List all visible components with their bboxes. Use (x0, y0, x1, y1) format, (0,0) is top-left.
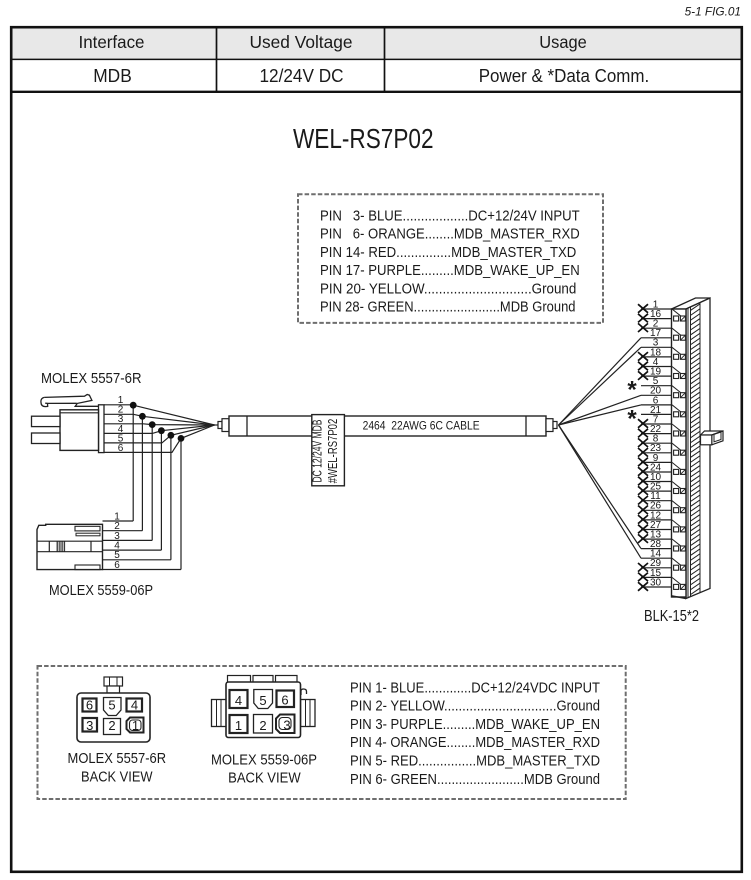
svg-text:BLK-15*2: BLK-15*2 (644, 608, 699, 625)
svg-text:*: * (627, 377, 637, 404)
svg-text:5: 5 (259, 693, 266, 708)
svg-text:30: 30 (650, 577, 662, 588)
svg-text:5: 5 (108, 698, 115, 713)
svg-text:PIN 6- GREEN..................: PIN 6- GREEN........................MDB … (350, 772, 600, 788)
svg-text:PIN 17- PURPLE.........MDB_WAK: PIN 17- PURPLE.........MDB_WAKE_UP_EN (320, 263, 580, 279)
svg-text:6: 6 (114, 560, 120, 571)
svg-text:Power & *Data Comm.: Power & *Data Comm. (479, 66, 650, 86)
svg-text:MOLEX 5557-6R: MOLEX 5557-6R (41, 370, 142, 387)
svg-text:Used Voltage: Used Voltage (250, 32, 353, 52)
svg-text:PIN 6- ORANGE........MDB_MAS: PIN 6- ORANGE........MDB_MASTER_RXD (320, 227, 580, 243)
svg-text:Interface: Interface (79, 32, 145, 52)
svg-text:BACK VIEW: BACK VIEW (228, 771, 301, 787)
svg-text:Usage: Usage (539, 32, 587, 52)
svg-text:BACK VIEW: BACK VIEW (81, 770, 153, 786)
svg-text:PIN 3- PURPLE.........MDB_WAKE: PIN 3- PURPLE.........MDB_WAKE_UP_EN (350, 717, 600, 733)
svg-text:6: 6 (86, 698, 93, 713)
svg-text:PIN 4- ORANGE........MDB_MASTE: PIN 4- ORANGE........MDB_MASTER_RXD (350, 735, 600, 751)
svg-text:6: 6 (281, 693, 288, 708)
svg-text:1: 1 (132, 718, 139, 733)
svg-text:4: 4 (235, 693, 242, 708)
svg-text:MOLEX 5559-06P: MOLEX 5559-06P (211, 752, 317, 768)
svg-text:5-1 FIG.01: 5-1 FIG.01 (685, 4, 741, 18)
svg-text:12/24V DC: 12/24V DC (260, 66, 344, 86)
svg-text:*: * (627, 405, 637, 432)
svg-text:DC 12/24V MDB: DC 12/24V MDB (311, 420, 325, 483)
svg-text:MDB: MDB (93, 66, 132, 86)
svg-text:3: 3 (86, 718, 93, 733)
svg-text:3: 3 (283, 718, 290, 733)
svg-text:PIN 28- GREEN.................: PIN 28- GREEN........................MDB… (320, 300, 576, 316)
svg-text:1: 1 (235, 718, 242, 733)
svg-text:PIN 20- YELLOW................: PIN 20- YELLOW..........................… (320, 281, 576, 297)
svg-text:2: 2 (259, 718, 266, 733)
svg-text:PIN 3- BLUE.................: PIN 3- BLUE..................DC+12/24V I… (320, 208, 580, 224)
svg-text:MOLEX 5557-6R: MOLEX 5557-6R (68, 751, 167, 767)
svg-text:WEL-RS7P02: WEL-RS7P02 (293, 123, 434, 154)
svg-text:2464 22AWG 6C CABLE: 2464 22AWG 6C CABLE (363, 418, 480, 432)
svg-text:PIN 5- RED................MDB_: PIN 5- RED................MDB_MASTER_TXD (350, 754, 600, 770)
svg-text:PIN 2- YELLOW.................: PIN 2- YELLOW...........................… (350, 699, 600, 715)
svg-text:PIN 14- RED...............MDB_: PIN 14- RED...............MDB_MASTER_TXD (320, 245, 576, 261)
svg-text:PIN 1- BLUE.............DC+12/: PIN 1- BLUE.............DC+12/24VDC INPU… (350, 680, 600, 696)
svg-text:#WEL-RS7P02: #WEL-RS7P02 (326, 419, 340, 484)
svg-text:2: 2 (108, 718, 115, 733)
svg-text:6: 6 (118, 443, 124, 454)
svg-text:MOLEX 5559-06P: MOLEX 5559-06P (49, 583, 153, 599)
svg-text:4: 4 (131, 698, 138, 713)
